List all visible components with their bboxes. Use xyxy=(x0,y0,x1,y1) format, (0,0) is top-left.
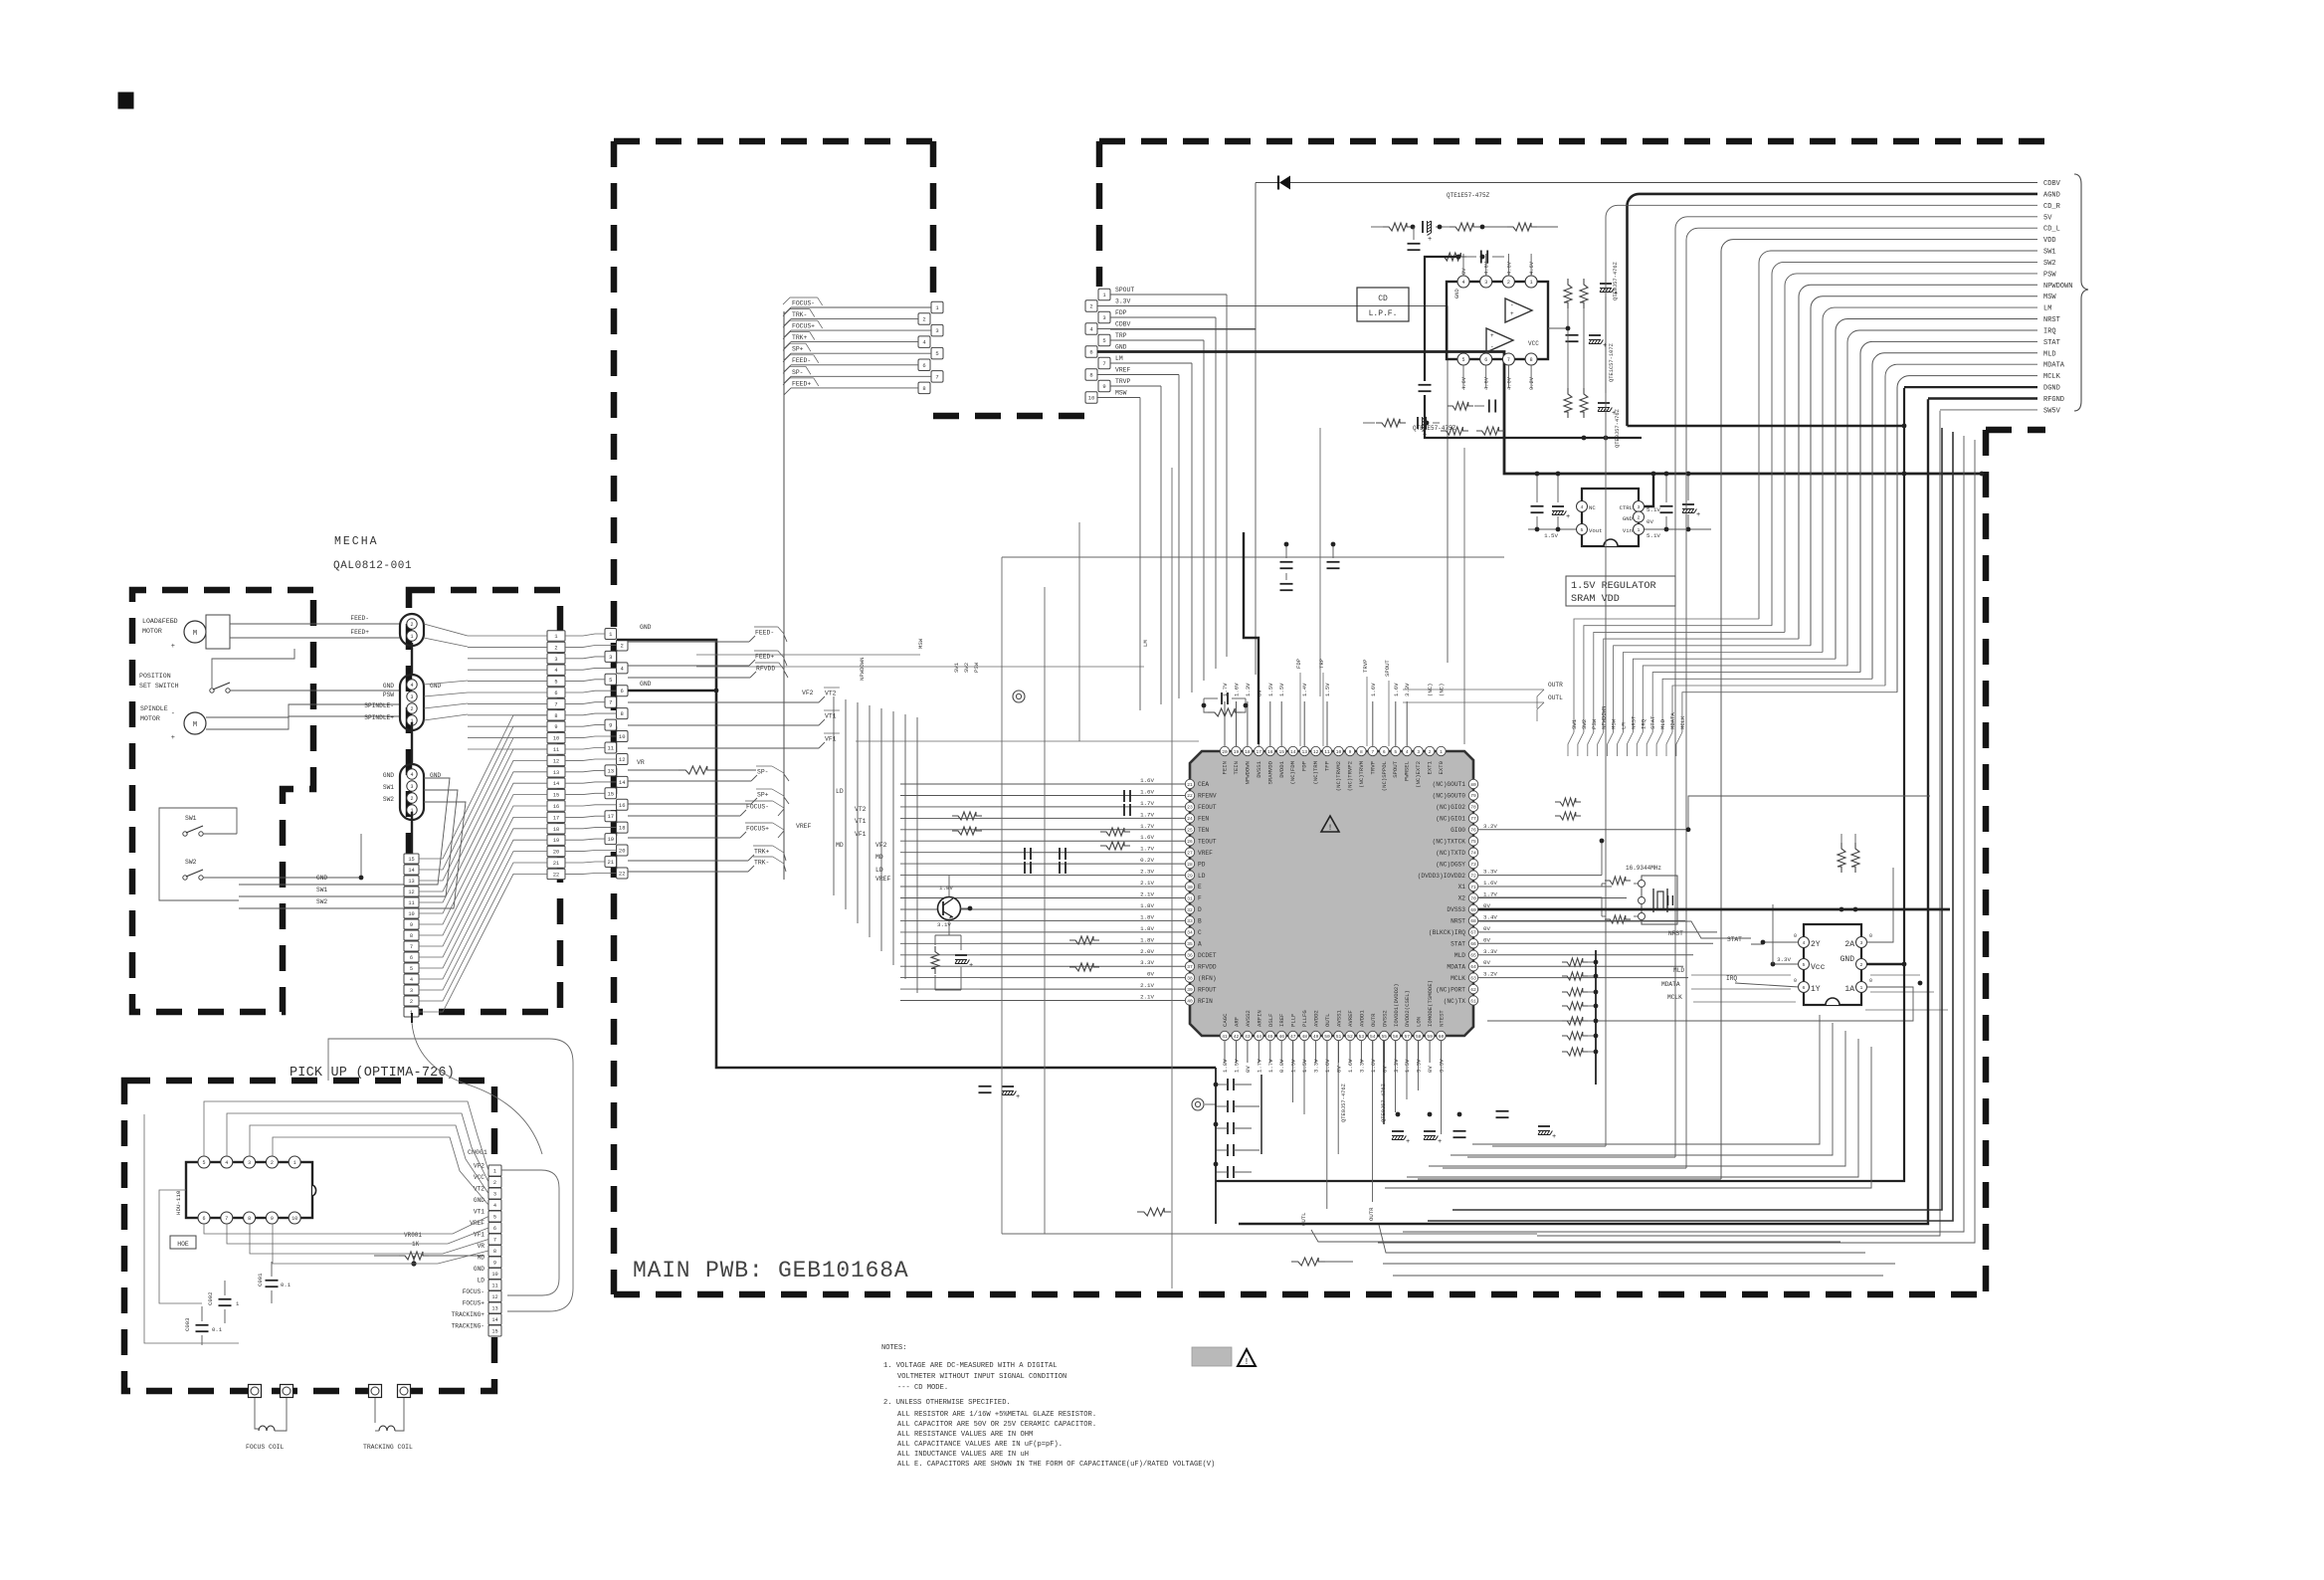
wire thick GND bus from CN22 pin6 xyxy=(628,690,716,692)
svg-text:SW1: SW1 xyxy=(383,784,394,791)
svg-text:LM: LM xyxy=(2043,305,2051,313)
svg-text:TFP: TFP xyxy=(1324,760,1331,771)
svg-text:0: 0 xyxy=(1794,978,1797,984)
svg-text:SP-: SP- xyxy=(757,769,769,776)
ecap below IC row xyxy=(1392,1130,1404,1132)
svg-text:10: 10 xyxy=(408,911,414,917)
wire spindle- xyxy=(206,704,400,717)
wire MDATA xyxy=(1691,988,1791,990)
svg-text:NRST: NRST xyxy=(2043,316,2060,324)
buffer 2A wire xyxy=(1866,868,1893,942)
svg-text:1.6V: 1.6V xyxy=(1370,683,1377,696)
svg-text:10: 10 xyxy=(619,733,626,740)
svg-text:0V: 0V xyxy=(1646,518,1653,525)
svg-text:SPOUT: SPOUT xyxy=(1384,660,1391,677)
svg-text:8: 8 xyxy=(554,713,557,719)
svg-text:1.5V: 1.5V xyxy=(1290,1059,1297,1073)
svg-text:1.7V: 1.7V xyxy=(1140,811,1154,818)
svg-text:PSW: PSW xyxy=(1591,718,1598,729)
svg-text:FDP: FDP xyxy=(1115,309,1127,316)
svg-text:+: + xyxy=(171,643,175,651)
svg-text:6: 6 xyxy=(1383,749,1386,755)
svg-text:FOCUS-: FOCUS- xyxy=(463,1288,484,1295)
svg-text:OUTL: OUTL xyxy=(1324,1014,1331,1027)
svg-text:VF1: VF1 xyxy=(855,831,867,838)
svg-text:VDD: VDD xyxy=(2043,237,2056,245)
svg-text:3.4V: 3.4V xyxy=(1483,913,1497,920)
svg-text:4: 4 xyxy=(225,1160,228,1166)
PICK UP box boundary xyxy=(124,1081,494,1391)
svg-text:1.7V: 1.7V xyxy=(1267,1059,1274,1073)
LPF opamp voltage labels xyxy=(1461,254,1535,390)
svg-text:5: 5 xyxy=(1394,749,1397,755)
svg-text:PWMSEL: PWMSEL xyxy=(1404,761,1411,781)
svg-text:59: 59 xyxy=(1427,1034,1433,1040)
svg-text:SW1: SW1 xyxy=(1571,718,1578,729)
svg-text:TRACKING COIL: TRACKING COIL xyxy=(363,1444,413,1451)
svg-text:52: 52 xyxy=(1347,1034,1353,1040)
svg-text:(NC)SPPOL: (NC)SPPOL xyxy=(1381,761,1388,791)
MAIN PWB boundary top-right segment xyxy=(1099,138,2045,145)
svg-text:69: 69 xyxy=(1470,907,1476,913)
wire FEED- long xyxy=(665,644,786,646)
svg-text:TRK+: TRK+ xyxy=(754,849,770,856)
svg-text:0V: 0V xyxy=(1245,1066,1252,1073)
svg-text:2Y: 2Y xyxy=(1811,940,1821,949)
svg-text:3: 3 xyxy=(1638,504,1641,510)
pickup IC pins xyxy=(198,1156,300,1224)
svg-text:VREF: VREF xyxy=(796,823,812,830)
long rail x1472 xyxy=(1463,448,1465,744)
svg-text:RFIN: RFIN xyxy=(1198,998,1213,1005)
svg-text:F: F xyxy=(1198,895,1202,902)
svg-text:SW2: SW2 xyxy=(963,663,970,673)
svg-text:60: 60 xyxy=(1439,1034,1445,1040)
svg-text:57: 57 xyxy=(1404,1034,1410,1040)
spindle motor symbol xyxy=(184,712,206,734)
IC U1 right pin wires with voltage labels xyxy=(1478,823,1950,978)
svg-text:14: 14 xyxy=(553,781,559,787)
svg-text:15: 15 xyxy=(1278,749,1284,755)
svg-text:62: 62 xyxy=(1470,987,1476,993)
svg-text:38: 38 xyxy=(1187,975,1193,981)
svg-text:44: 44 xyxy=(1257,1034,1262,1040)
IC U1 warning triangle xyxy=(1321,816,1339,832)
svg-text:9: 9 xyxy=(493,1261,496,1267)
resistor lpf bot2 xyxy=(1441,427,1468,435)
svg-text:2: 2 xyxy=(1860,962,1863,968)
svg-text:NRST: NRST xyxy=(1451,918,1465,925)
svg-text:1.6V: 1.6V xyxy=(1140,777,1154,784)
svg-text:C003: C003 xyxy=(184,1318,191,1331)
svg-text:63: 63 xyxy=(1470,975,1476,981)
regulator ctrl wire xyxy=(1645,474,1653,506)
svg-text:10: 10 xyxy=(491,1272,497,1278)
svg-text:TEOUT: TEOUT xyxy=(1198,839,1217,846)
svg-text:1.7V: 1.7V xyxy=(1140,846,1154,853)
svg-text:4: 4 xyxy=(1803,940,1806,946)
svg-text:45: 45 xyxy=(1267,1034,1273,1040)
svg-text:(NC)TRVM2: (NC)TRVM2 xyxy=(1335,761,1342,791)
svg-text:0V: 0V xyxy=(1147,971,1154,978)
svg-text:1: 1 xyxy=(554,634,557,640)
wire IOVDD1 drop xyxy=(1395,1041,1397,1112)
svg-text:16: 16 xyxy=(619,802,626,809)
svg-text:Vin: Vin xyxy=(1623,527,1633,534)
svg-text:(NC)FDM: (NC)FDM xyxy=(1289,761,1296,785)
svg-text:1.5V: 1.5V xyxy=(1404,1059,1411,1073)
svg-text:FEOUT: FEOUT xyxy=(1198,804,1217,811)
svg-text:EXT0: EXT0 xyxy=(1438,760,1445,774)
svg-text:TRP: TRP xyxy=(1318,658,1325,669)
svg-text:3: 3 xyxy=(1417,749,1420,755)
svg-text:C002: C002 xyxy=(207,1292,214,1305)
svg-text:1: 1 xyxy=(1638,527,1641,533)
CN22 right-side net flags tier1 xyxy=(628,627,840,872)
svg-text:1.8V: 1.8V xyxy=(1140,936,1154,943)
wire sw2 run xyxy=(237,834,361,878)
resistor bottom mid2 xyxy=(1137,1208,1171,1216)
resistor lpf bot4 xyxy=(1448,402,1473,410)
svg-text:2: 2 xyxy=(410,796,413,802)
svg-text:5: 5 xyxy=(609,677,612,684)
svg-text:1.6V: 1.6V xyxy=(1370,1059,1377,1073)
svg-text:9: 9 xyxy=(1102,383,1105,390)
resistor vert r4 xyxy=(1580,388,1588,418)
svg-text:SW2: SW2 xyxy=(316,898,327,905)
svg-text:71: 71 xyxy=(1470,885,1476,890)
svg-text:NRST: NRST xyxy=(1668,930,1683,937)
svg-text:VREF: VREF xyxy=(470,1220,484,1227)
svg-text:14: 14 xyxy=(1290,749,1296,755)
svg-text:SP+: SP+ xyxy=(757,792,769,799)
svg-text:FOCUS-: FOCUS- xyxy=(746,804,769,811)
svg-text:PLLF: PLLF xyxy=(1290,1014,1297,1027)
svg-text:1.5V: 1.5V xyxy=(1267,683,1274,696)
svg-text:3.3V: 3.3V xyxy=(1416,1059,1423,1073)
mecha flex connector 22-pin column xyxy=(547,631,565,880)
MAIN PWB boundary bottom edge xyxy=(614,1291,1986,1298)
svg-text:3.3V: 3.3V xyxy=(1777,956,1791,963)
svg-text:VCC: VCC xyxy=(1528,340,1539,347)
svg-text:3.3V: 3.3V xyxy=(1115,298,1131,305)
svg-text:VF1: VF1 xyxy=(474,1232,484,1239)
mecha connector stadium switches xyxy=(400,764,424,820)
svg-text:MSW: MSW xyxy=(1611,718,1618,729)
connector CN 8-pin wires with cable bus xyxy=(783,297,931,880)
svg-text:-: - xyxy=(1490,343,1494,350)
svg-text:IRQ: IRQ xyxy=(1640,718,1646,729)
MAIN PWB boundary notch left vertical xyxy=(930,141,937,298)
bottom-right nested corner bundle xyxy=(1385,1015,1871,1188)
svg-text:QAL0812-001: QAL0812-001 xyxy=(333,560,412,572)
svg-text:DCDET: DCDET xyxy=(1198,952,1217,959)
svg-text:14: 14 xyxy=(408,868,414,874)
flag drop lines above IC xyxy=(1299,673,1301,746)
pickup internal wiring xyxy=(204,1101,488,1264)
svg-text:2: 2 xyxy=(410,706,413,712)
svg-text:MD: MD xyxy=(875,854,883,861)
irq wire xyxy=(1735,983,1799,987)
capacitor column below IC xyxy=(1216,1068,1259,1224)
wire GND thick from CN10 pin6 xyxy=(1097,352,1982,475)
svg-text:TRACKING-: TRACKING- xyxy=(452,1323,484,1330)
svg-text:SRAMVDD: SRAMVDD xyxy=(1266,760,1273,784)
IC U1 top pin row 20..1 with labels xyxy=(1220,746,1446,791)
svg-text:3.3V: 3.3V xyxy=(1483,869,1497,876)
svg-text:17: 17 xyxy=(1257,749,1262,755)
wire motor FEED- xyxy=(230,623,400,625)
svg-text:MOTOR: MOTOR xyxy=(142,628,162,635)
svg-text:VREF: VREF xyxy=(1198,850,1213,857)
svg-text:GND: GND xyxy=(1115,344,1127,351)
right edge signal name labels xyxy=(2043,180,2072,415)
svg-text:31: 31 xyxy=(1187,895,1193,901)
horizontal net lines above IC xyxy=(856,740,1199,742)
svg-text:8: 8 xyxy=(1089,372,1092,379)
svg-text:1.5V: 1.5V xyxy=(1234,1059,1241,1073)
label 1.5V REGULATOR SRAM VDD xyxy=(1566,576,1675,606)
svg-text:22: 22 xyxy=(553,872,559,878)
svg-text:RFVDD: RFVDD xyxy=(756,666,775,673)
svg-text:VR: VR xyxy=(637,759,645,766)
svg-text:TRACKING+: TRACKING+ xyxy=(452,1311,485,1318)
svg-text:+: + xyxy=(1406,1138,1410,1146)
svg-text:19: 19 xyxy=(607,836,614,843)
svg-text:9: 9 xyxy=(1349,749,1352,755)
svg-text:NRST: NRST xyxy=(1630,715,1637,729)
wire motor FEED+ xyxy=(230,637,400,639)
svg-text:37: 37 xyxy=(1187,964,1193,970)
svg-text:79: 79 xyxy=(1470,793,1476,799)
MAIN PWB boundary notch right vertical xyxy=(1096,141,1103,287)
svg-text:TRK-: TRK- xyxy=(754,860,769,867)
svg-text:PICK UP (OPTIMA-726): PICK UP (OPTIMA-726) xyxy=(290,1066,455,1081)
regulator pins xyxy=(1577,501,1588,512)
svg-text:4.6V: 4.6V xyxy=(1484,376,1490,390)
buffer IC body xyxy=(1804,924,1861,1005)
svg-text:11: 11 xyxy=(491,1284,497,1289)
svg-text:3.2V: 3.2V xyxy=(1483,823,1497,830)
cap resistor parallel above IC xyxy=(1221,692,1223,704)
svg-text:14: 14 xyxy=(619,779,626,786)
wire spindle+ xyxy=(206,716,400,729)
svg-text:5: 5 xyxy=(935,350,938,357)
svg-text:2.0V: 2.0V xyxy=(1140,948,1154,955)
resistor bottom mid xyxy=(1291,1258,1325,1266)
svg-text:CDBV: CDBV xyxy=(2043,180,2061,188)
svg-text:SW1: SW1 xyxy=(953,662,960,673)
circled node B xyxy=(1192,1098,1204,1110)
svg-text:48: 48 xyxy=(1301,1034,1307,1040)
svg-text:15: 15 xyxy=(408,857,414,863)
svg-text:FEED-: FEED- xyxy=(350,615,369,622)
transistor Q1 xyxy=(938,897,961,920)
pickup IC HDU-110 body xyxy=(186,1162,312,1218)
svg-text:RFENV: RFENV xyxy=(1198,793,1217,800)
resistor left of IC a xyxy=(1100,828,1130,836)
svg-text:0V: 0V xyxy=(1483,936,1490,943)
svg-text:LD: LD xyxy=(836,788,844,795)
svg-text:0: 0 xyxy=(1869,978,1872,984)
svg-text:1K: 1K xyxy=(412,1241,420,1248)
svg-text:8: 8 xyxy=(922,385,925,392)
svg-text:TRVP: TRVP xyxy=(1115,378,1131,385)
svg-text:-: - xyxy=(1510,301,1514,308)
svg-text:6: 6 xyxy=(493,1226,496,1232)
svg-text:70: 70 xyxy=(1470,895,1476,901)
svg-text:19: 19 xyxy=(553,838,559,844)
svg-text:34: 34 xyxy=(1187,930,1193,936)
svg-text:2: 2 xyxy=(1429,749,1432,755)
svg-text:NOTES:: NOTES: xyxy=(881,1344,907,1352)
svg-text:55: 55 xyxy=(1382,1034,1388,1040)
svg-text:3: 3 xyxy=(493,1192,496,1198)
svg-text:AVREF: AVREF xyxy=(1347,1010,1354,1027)
CN22 tier2 net flags xyxy=(796,690,891,883)
load&feed motor symbol xyxy=(184,621,206,643)
svg-text:1.5V: 1.5V xyxy=(1544,532,1558,539)
svg-text:FEED-: FEED- xyxy=(755,630,774,637)
MAIN PWB boundary top-left segment xyxy=(614,138,933,145)
svg-text:15: 15 xyxy=(491,1329,497,1335)
svg-text:1Y: 1Y xyxy=(1811,985,1821,994)
svg-text:10: 10 xyxy=(553,736,559,742)
svg-text:7: 7 xyxy=(1371,749,1374,755)
svg-text:VF1: VF1 xyxy=(825,736,837,743)
svg-text:12: 12 xyxy=(491,1294,497,1300)
svg-text:(NC)TRVP2: (NC)TRVP2 xyxy=(1347,761,1354,791)
svg-text:1.5V REGULATOR: 1.5V REGULATOR xyxy=(1571,581,1656,592)
svg-text:QTE1E57-475Z: QTE1E57-475Z xyxy=(1447,192,1490,199)
svg-text:4: 4 xyxy=(554,668,557,674)
svg-text:SP-: SP- xyxy=(792,369,804,376)
svg-text:TRP: TRP xyxy=(1115,332,1127,339)
svg-text:42: 42 xyxy=(1234,1034,1240,1040)
wires stadium to column fan xyxy=(424,624,468,636)
svg-text:NC: NC xyxy=(1589,504,1596,511)
svg-text:+: + xyxy=(1428,236,1432,244)
bus SW5V route xyxy=(1537,411,1940,1236)
svg-text:HDU-110: HDU-110 xyxy=(175,1190,182,1215)
resistor lpf top1 xyxy=(1383,223,1413,231)
svg-text:SP+: SP+ xyxy=(792,346,804,353)
svg-text:1: 1 xyxy=(1440,749,1443,755)
svg-text:1.6V: 1.6V xyxy=(1347,1059,1354,1073)
svg-text:3.3V: 3.3V xyxy=(1140,959,1154,966)
LPF opamp IC body xyxy=(1447,282,1548,359)
svg-text:16: 16 xyxy=(1267,749,1273,755)
flex cable rounded path 2 xyxy=(501,1170,559,1295)
svg-text:5.1V: 5.1V xyxy=(1646,532,1660,539)
svg-text:10: 10 xyxy=(291,1216,297,1222)
wire transistor bottom xyxy=(934,935,936,945)
wire OUTR drop xyxy=(1372,1041,1374,1202)
resistor vert r2 xyxy=(1580,279,1588,308)
thick wire lpf frame lower xyxy=(1425,395,1642,438)
svg-text:B: B xyxy=(1198,918,1202,925)
svg-text:1.8V: 1.8V xyxy=(1140,902,1154,909)
resistor lpf bot3 xyxy=(1476,427,1504,435)
svg-text:9: 9 xyxy=(271,1216,274,1222)
wires OUTL OUTR long xyxy=(1311,1230,1840,1242)
svg-text:1: 1 xyxy=(1860,985,1863,991)
svg-text:32: 32 xyxy=(1187,907,1193,913)
svg-text:1.3V: 1.3V xyxy=(1245,683,1252,696)
svg-text:(NC)TX: (NC)TX xyxy=(1444,998,1466,1005)
svg-text:43: 43 xyxy=(1245,1034,1251,1040)
long horizontal y1240 xyxy=(1002,1233,1537,1235)
svg-text:0V: 0V xyxy=(1461,268,1467,275)
wires from mecha 15-pin column fan xyxy=(419,715,547,1012)
regulator top caps wires xyxy=(1535,472,1540,477)
wire DVDD2 drop xyxy=(1406,1041,1408,1099)
ecap low left xyxy=(1002,1086,1014,1087)
svg-text:2.1V: 2.1V xyxy=(1140,880,1154,887)
svg-text:MSW: MSW xyxy=(1115,390,1127,397)
svg-text:VR: VR xyxy=(478,1243,485,1250)
svg-text:LD: LD xyxy=(875,867,883,874)
svg-text:2: 2 xyxy=(1638,515,1641,521)
bottom long wire b xyxy=(1393,1275,1883,1277)
svg-text:20: 20 xyxy=(553,850,559,856)
svg-text:1.7V: 1.7V xyxy=(1483,891,1497,898)
svg-text:NTEST: NTEST xyxy=(1439,1010,1446,1027)
svg-text:FDP: FDP xyxy=(1295,658,1302,669)
svg-text:3: 3 xyxy=(410,988,413,994)
svg-text:FEIN: FEIN xyxy=(1222,761,1229,774)
IC U1 bottom pin stub wires with voltage labels xyxy=(1222,1041,1446,1073)
svg-text:49: 49 xyxy=(1313,1034,1319,1040)
resistor vert r3 xyxy=(1564,388,1572,418)
transistor wires xyxy=(948,876,950,896)
svg-text:MDATA: MDATA xyxy=(1661,981,1680,988)
svg-text:13: 13 xyxy=(607,767,614,774)
svg-text:IOMODE(TSMODE): IOMODE(TSMODE) xyxy=(1427,980,1434,1027)
svg-text:1: 1 xyxy=(410,634,413,640)
svg-text:8: 8 xyxy=(493,1249,496,1255)
diode D top xyxy=(1256,182,1278,184)
cap pair left of IC a xyxy=(1024,848,1026,860)
svg-text:IOVDD1(DVDD2): IOVDD1(DVDD2) xyxy=(1393,983,1400,1027)
svg-text:VT1: VT1 xyxy=(474,1209,484,1216)
svg-text:FOCUS+: FOCUS+ xyxy=(792,323,815,330)
svg-text:2: 2 xyxy=(1089,303,1092,310)
svg-text:1. VOLTAGE ARE DC-MEASURED WI: 1. VOLTAGE ARE DC-MEASURED WITH A DIGITA… xyxy=(883,1362,1058,1370)
circled node A xyxy=(1013,691,1025,702)
svg-text:5: 5 xyxy=(554,680,557,686)
long rail x1455 xyxy=(1447,448,1449,567)
svg-text:SW1: SW1 xyxy=(316,887,327,893)
wire DVSS3 thick xyxy=(1478,908,1950,911)
svg-text:FEN: FEN xyxy=(1198,816,1209,823)
svg-text:CD_L: CD_L xyxy=(2043,226,2060,234)
svg-text:54: 54 xyxy=(1370,1034,1376,1040)
wire thick into 15-pin column xyxy=(411,1013,413,1023)
ecap right xyxy=(1600,283,1612,285)
svg-text:FOCUS COIL: FOCUS COIL xyxy=(246,1444,285,1451)
svg-text:1.6V: 1.6V xyxy=(1324,1059,1331,1073)
wires into mecha column xyxy=(468,636,547,749)
svg-text:18: 18 xyxy=(1245,749,1251,755)
wire PLLF drop xyxy=(1292,1041,1294,1102)
svg-text:FEED+: FEED+ xyxy=(755,654,774,661)
svg-text:5V: 5V xyxy=(2043,214,2052,222)
wire sw1 run xyxy=(159,808,239,900)
svg-text:3: 3 xyxy=(248,1160,251,1166)
svg-text:MCLK: MCLK xyxy=(2043,373,2061,381)
svg-text:OUTL: OUTL xyxy=(1548,694,1563,701)
